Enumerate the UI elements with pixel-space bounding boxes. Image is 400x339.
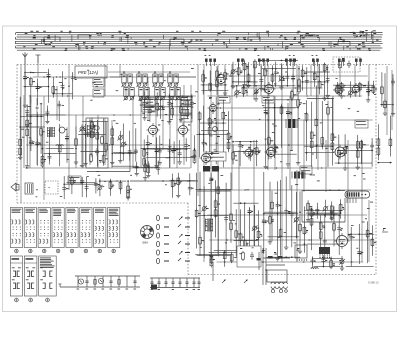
resistor R27 <box>41 148 46 168</box>
resistor R12 <box>271 68 274 83</box>
ground <box>176 193 180 197</box>
wire <box>232 62 234 85</box>
mode switch panel S3 <box>10 256 56 302</box>
resistor R86 <box>307 202 313 212</box>
wire <box>197 190 230 192</box>
ground <box>158 161 162 165</box>
resistor R5 <box>216 69 222 88</box>
wire <box>240 209 242 252</box>
wire <box>199 112 201 157</box>
wire <box>110 76 196 78</box>
tube V1 mixer triode <box>215 72 229 86</box>
capacitor C11 <box>291 60 295 82</box>
wire <box>46 148 74 150</box>
wire <box>202 70 204 95</box>
resistor R39 <box>143 148 149 167</box>
ground <box>259 87 263 91</box>
stage cluster rf-mid <box>25 101 65 128</box>
wire <box>143 140 145 168</box>
wire <box>210 173 212 254</box>
stage cluster lr-2 <box>233 202 262 259</box>
wire <box>349 81 351 97</box>
trimmer capacitor C68 <box>294 217 300 238</box>
main dashed border left <box>16 65 18 204</box>
wire <box>37 79 39 106</box>
capacitor C22 <box>47 153 51 161</box>
stage cluster mid-2 <box>141 92 196 124</box>
resistor R25 <box>26 118 32 137</box>
tube V8 ratio detector <box>333 145 348 160</box>
resistor R18 <box>336 84 341 94</box>
drawing number <box>368 281 379 285</box>
harness termination N1 <box>205 55 217 66</box>
wire <box>145 148 188 150</box>
wire <box>141 99 192 101</box>
wire <box>186 99 188 119</box>
label PRE 12A <box>75 66 107 78</box>
resistor R55 <box>315 118 318 148</box>
trimmer capacitor C70 <box>323 206 329 212</box>
trimmer capacitor C57 <box>97 180 103 190</box>
wire <box>287 103 289 162</box>
wire <box>191 94 193 119</box>
resistor R37 <box>180 99 183 115</box>
wire <box>179 140 181 160</box>
wire <box>235 209 237 257</box>
ground <box>45 119 49 123</box>
wire <box>295 192 297 239</box>
capacitor C43 <box>214 122 221 156</box>
wire <box>311 256 313 267</box>
wire <box>48 129 50 164</box>
wire <box>24 71 26 103</box>
ground <box>23 103 27 107</box>
ground <box>296 161 300 165</box>
coil unit label box 8 <box>68 176 81 184</box>
capacitor C71 <box>323 214 327 245</box>
wire <box>156 92 158 116</box>
capacitor C29 <box>134 147 138 155</box>
wire <box>91 118 93 158</box>
stage cluster af-col <box>263 89 302 168</box>
coil unit label box 1 <box>93 78 104 97</box>
ground <box>126 196 130 200</box>
trimmer capacitor C47 <box>248 141 254 156</box>
capacitor C48 <box>264 99 268 116</box>
main dashed border right <box>375 65 377 275</box>
resistor R45 <box>242 85 248 96</box>
wire <box>141 96 193 98</box>
wire <box>19 97 21 156</box>
wire <box>297 93 299 160</box>
resistor R31 <box>96 131 99 141</box>
wire <box>62 71 64 97</box>
stage cluster if-2-top <box>259 58 301 93</box>
resistor R9 <box>247 73 250 83</box>
wire <box>141 148 191 150</box>
capacitor C23 <box>65 134 69 142</box>
stage cluster mains-in <box>310 255 344 270</box>
wire <box>26 114 66 116</box>
wire <box>81 151 107 153</box>
stage cluster am-col <box>304 86 336 168</box>
wire <box>43 153 76 155</box>
wire <box>291 89 293 151</box>
wire <box>234 240 258 242</box>
wire <box>327 101 329 167</box>
resistor R97 <box>230 253 233 263</box>
resistor R58 <box>331 132 336 151</box>
ground <box>223 91 227 95</box>
wire <box>348 233 374 235</box>
resistor R48 <box>268 136 274 146</box>
wire <box>389 116 391 157</box>
filament chain A <box>59 276 141 289</box>
wire <box>21 126 45 128</box>
capacitor C58 <box>188 180 194 192</box>
wire <box>275 62 277 87</box>
wire <box>359 82 361 97</box>
wire <box>350 227 352 267</box>
wire <box>307 200 309 217</box>
resistor R38 <box>186 96 189 118</box>
output socket box 1 <box>295 245 307 261</box>
ground <box>264 164 268 168</box>
resistor R59 <box>337 148 342 164</box>
wire <box>262 68 296 70</box>
ground <box>25 164 29 168</box>
capacitor C75 <box>241 256 247 264</box>
resistor R33 <box>105 142 108 152</box>
wire <box>234 257 259 259</box>
capacitor C16 <box>391 78 395 105</box>
wire <box>265 99 301 101</box>
stage cluster det-col-a <box>231 85 262 101</box>
resistor R60 <box>344 145 347 155</box>
wire <box>231 85 262 87</box>
stage cluster if-col-2 <box>196 97 232 168</box>
resistor R20 <box>358 82 361 92</box>
resistor R82 <box>269 215 274 225</box>
wire <box>195 254 230 256</box>
wire <box>26 112 28 164</box>
ground <box>246 83 250 87</box>
capacitor C62 <box>248 207 254 258</box>
ground <box>298 249 302 253</box>
wire <box>96 120 98 166</box>
resistor R66 <box>144 163 147 173</box>
ground <box>286 162 290 166</box>
wire <box>307 214 339 216</box>
pushbutton switch bank S1 <box>345 191 370 203</box>
main dashed border bottom-right <box>188 274 376 276</box>
ground <box>343 166 347 170</box>
wire <box>371 225 373 256</box>
wire <box>66 127 68 162</box>
resistor R41 <box>198 111 201 135</box>
resistor R96 <box>223 250 226 260</box>
wire <box>357 135 359 165</box>
ground <box>340 266 344 270</box>
resistor R92 <box>333 214 336 232</box>
wire <box>250 144 252 161</box>
electrolytic block C90 <box>319 247 330 254</box>
transformer T3 <box>203 118 226 172</box>
resistor R11 <box>264 67 267 86</box>
transformer T1 <box>47 127 54 137</box>
coil unit label box 2 <box>142 98 155 112</box>
wire <box>127 182 129 196</box>
capacitor C41 <box>184 142 190 150</box>
wire <box>306 212 340 214</box>
capacitor C69 <box>315 206 319 214</box>
ground <box>254 97 258 101</box>
wire <box>322 255 324 267</box>
ground <box>83 162 87 166</box>
trimmer capacitor C59 <box>201 206 208 216</box>
wire <box>267 256 300 258</box>
ground <box>143 176 147 180</box>
wire <box>264 61 266 87</box>
trimmer capacitor C6 <box>230 69 236 83</box>
wire <box>339 149 373 151</box>
resistor R22 <box>381 85 384 105</box>
wire <box>230 173 232 243</box>
wire <box>330 257 332 270</box>
wire <box>109 179 111 196</box>
wire <box>225 183 227 255</box>
wire <box>304 209 342 211</box>
wire <box>327 65 329 93</box>
wire <box>302 65 304 90</box>
resistor R69 <box>119 181 122 191</box>
stage cluster det-col-b <box>232 140 261 166</box>
resistor R79 <box>239 202 244 242</box>
stage cluster left-tail <box>169 173 195 198</box>
ground <box>275 257 279 261</box>
ground <box>118 159 122 163</box>
transformer T2 <box>86 118 108 168</box>
resistor R28 <box>58 144 61 154</box>
stage cluster if-3-top <box>301 61 330 101</box>
resistor R51 <box>291 90 297 101</box>
tube socket base diagram B1 <box>141 226 154 245</box>
wire <box>267 153 297 155</box>
resistor R23 <box>384 99 387 109</box>
resistor R73 <box>195 209 201 219</box>
capacitor C20 <box>29 116 35 146</box>
capacitor C21 <box>35 116 41 148</box>
svg-text:S 698 13: S 698 13 <box>368 281 379 285</box>
wire <box>338 205 340 255</box>
ground <box>179 118 183 122</box>
wire <box>335 162 372 164</box>
wire <box>67 182 96 184</box>
wire <box>239 141 241 166</box>
wire <box>26 105 28 123</box>
resistor R30 <box>91 120 96 139</box>
resistor R74 <box>199 189 205 246</box>
ground <box>306 218 310 222</box>
resistor R63 <box>377 137 380 163</box>
wire <box>197 254 231 256</box>
resistor R57 <box>327 98 330 116</box>
coil L3 <box>311 268 318 269</box>
wire <box>285 176 287 245</box>
resistor R35 <box>156 102 161 112</box>
wire <box>232 144 234 164</box>
wire <box>144 106 191 108</box>
ground <box>154 163 158 167</box>
wire <box>325 200 327 218</box>
ground <box>326 93 330 97</box>
wire <box>24 71 48 73</box>
capacitor C51 <box>62 183 68 192</box>
wire <box>105 121 107 156</box>
wire <box>147 161 149 173</box>
pickup arrow 1 <box>213 262 226 283</box>
wire <box>63 176 65 199</box>
resistor R89 <box>303 226 308 245</box>
wire <box>235 141 259 143</box>
wire <box>210 253 212 265</box>
resistor R95 <box>210 255 215 268</box>
resistor R53 <box>305 112 308 154</box>
wire <box>46 106 48 120</box>
resistor R91 <box>319 221 325 240</box>
tube V2 IF amp <box>147 123 161 137</box>
wire <box>147 135 149 162</box>
wire <box>200 122 226 124</box>
wire <box>312 258 343 260</box>
wire <box>304 71 330 73</box>
capacitor C19 <box>57 101 61 109</box>
stage cluster af-coupling <box>133 160 161 180</box>
wire <box>112 165 138 167</box>
resistor R14 <box>301 68 307 82</box>
capacitor C25 <box>84 130 90 138</box>
resistor R50 <box>280 105 283 115</box>
harness termination N5 <box>312 55 319 66</box>
resistor R3 <box>202 73 207 86</box>
harness termination N3 <box>258 55 270 66</box>
capacitor C28 <box>128 148 132 156</box>
wire <box>65 183 98 185</box>
wire <box>298 66 300 91</box>
wire <box>384 73 386 111</box>
ground <box>142 116 146 120</box>
wire <box>130 180 198 182</box>
wire <box>311 102 313 167</box>
wire <box>321 101 323 149</box>
driver unit box <box>237 246 261 267</box>
coil L1 <box>56 127 65 146</box>
wire <box>82 120 108 122</box>
wire <box>338 135 340 164</box>
resistor R87 <box>330 204 333 219</box>
wire <box>113 152 138 154</box>
resistor R54 <box>310 130 315 149</box>
wire <box>133 166 159 168</box>
wire <box>209 109 211 152</box>
transformer T7 <box>205 219 212 232</box>
oscillator trimmer bank row 2 <box>123 88 180 101</box>
wire <box>99 179 101 197</box>
resistor R6 <box>224 71 227 86</box>
wire <box>242 249 244 265</box>
wire <box>380 104 391 106</box>
wire <box>209 251 259 253</box>
capacitor C72 <box>337 214 343 232</box>
wire <box>103 119 105 166</box>
resistor R43 <box>222 111 227 124</box>
resistor R84 <box>279 228 282 238</box>
resistor R46 <box>232 141 237 161</box>
wire <box>243 86 245 97</box>
capacitor C31 <box>148 107 155 115</box>
trimmer capacitor C78 <box>339 259 345 267</box>
stage cluster ratio-det <box>335 134 374 170</box>
resistor R98 <box>254 251 257 261</box>
wire <box>248 62 250 83</box>
wire <box>95 178 97 193</box>
wire <box>215 180 217 237</box>
trimmer capacitor C44 <box>234 85 241 96</box>
wire <box>244 60 246 83</box>
resistor R34 <box>111 127 114 154</box>
wire <box>304 145 332 147</box>
wire <box>324 63 326 96</box>
wire <box>286 59 288 86</box>
wire <box>271 191 273 241</box>
ground <box>330 216 334 220</box>
wire <box>346 266 374 268</box>
mains motor block M1 <box>45 181 58 194</box>
tube V11 <box>333 84 346 97</box>
capacitor C74 <box>357 233 363 256</box>
earth terminal <box>36 55 41 63</box>
wire <box>180 97 182 117</box>
wire <box>224 251 226 267</box>
wire <box>203 186 205 258</box>
resistor R1 <box>29 72 35 87</box>
wire <box>316 203 318 219</box>
resistor R19 <box>340 82 343 92</box>
resistor R15 <box>313 71 319 81</box>
wire <box>305 152 334 154</box>
wire <box>367 221 369 263</box>
wire <box>52 93 72 95</box>
stage cluster left-col <box>18 97 45 169</box>
wire <box>40 103 42 154</box>
svg-text:B9A: B9A <box>143 241 149 245</box>
wire <box>392 74 394 112</box>
wire <box>215 97 217 165</box>
capacitor C37 <box>158 147 162 155</box>
wire <box>233 151 260 153</box>
wire <box>306 100 308 161</box>
coil unit label box 4 <box>218 96 230 103</box>
wire <box>256 140 258 166</box>
wire <box>264 213 299 215</box>
resistor R32 <box>102 154 108 164</box>
wire <box>372 81 374 94</box>
wire <box>336 82 338 94</box>
wire <box>264 59 298 61</box>
ground <box>391 112 395 116</box>
wire <box>277 181 279 256</box>
wire <box>157 161 159 175</box>
